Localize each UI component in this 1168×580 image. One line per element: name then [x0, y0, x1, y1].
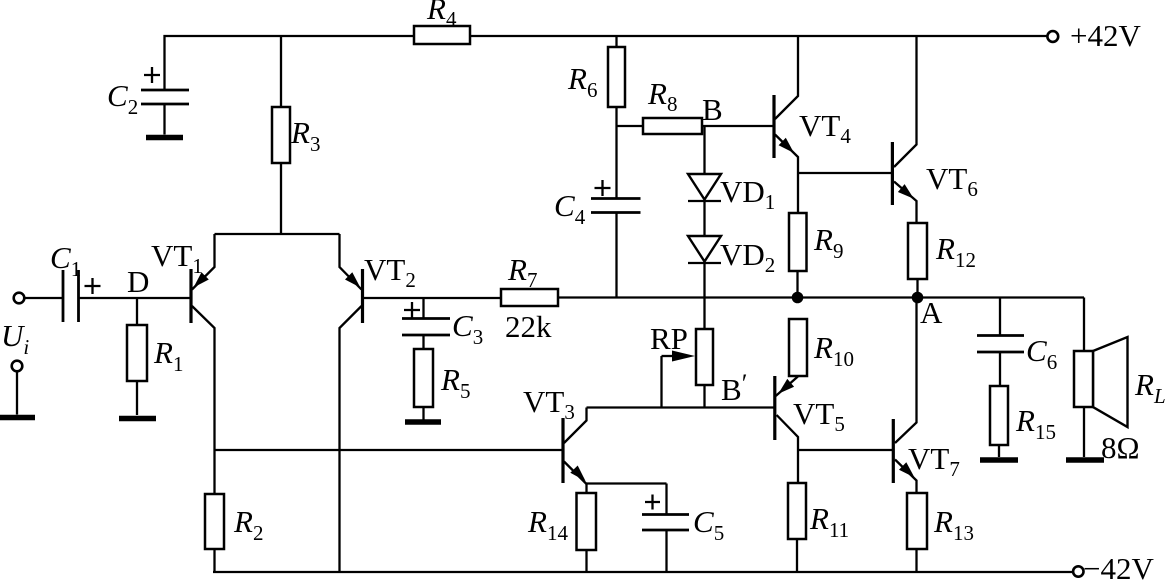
resistor R11 — [788, 483, 849, 572]
resistor R6 — [567, 36, 625, 199]
svg-text:A: A — [920, 295, 943, 330]
resistor R9 — [789, 213, 843, 298]
transistor VT6 — [892, 36, 977, 223]
resistor R4 — [414, 0, 470, 44]
wire VT2 base to R7 — [363, 297, 502, 299]
wire VT3 emitter to C5 — [587, 482, 667, 484]
speaker RL — [1074, 298, 1166, 466]
wire VT5 collector to VT7 base — [798, 449, 893, 451]
resistor R1 — [127, 298, 183, 415]
svg-text:RP: RP — [650, 321, 688, 356]
diode VD1 — [688, 174, 775, 214]
capacitor C2 — [107, 67, 189, 135]
resistor R14 — [527, 484, 596, 573]
transistor VT3 — [523, 384, 587, 484]
resistor R15 — [990, 352, 1056, 457]
resistor R10 — [789, 319, 854, 376]
capacitor C6 — [977, 298, 1057, 375]
resistor R3 — [272, 36, 320, 234]
svg-text:−42V: −42V — [1083, 551, 1154, 580]
resistor R8 — [617, 76, 703, 134]
ground below R15 — [980, 457, 1018, 463]
-42V terminal — [1073, 551, 1154, 580]
capacitor C3 — [402, 298, 483, 349]
svg-text:8Ω: 8Ω — [1101, 430, 1140, 465]
input terminal Ui — [1, 293, 62, 415]
svg-text:+42V: +42V — [1070, 18, 1141, 53]
transistor VT5 — [775, 376, 845, 483]
resistor R2 — [205, 450, 263, 572]
wire top supply rail right of R4 — [470, 35, 1048, 37]
wire B down to VD1 — [703, 126, 705, 174]
ground below R5 — [405, 419, 441, 425]
wire B' line VT3 collector to VT5 base — [587, 406, 775, 408]
wire top supply rail left of R4 — [165, 36, 415, 90]
ground below R1 — [119, 416, 156, 422]
wire C1 to VT1 base — [79, 297, 192, 299]
resistor R5 — [414, 335, 470, 420]
wire B to VT4 base — [702, 125, 774, 127]
wire mid bus R7 to output branch — [558, 296, 1084, 298]
potentiometer RP — [650, 321, 713, 408]
ground below speaker — [1066, 457, 1104, 463]
resistor R12 — [908, 223, 976, 298]
svg-text:B: B — [702, 92, 723, 127]
resistor R7 22k — [501, 252, 558, 344]
wire emitter bus of VT1/VT2 — [215, 233, 340, 235]
wire VT1 collector bus to VT3 base — [215, 449, 564, 451]
capacitor C5 — [642, 484, 724, 573]
diode VD2 — [688, 236, 775, 277]
junction node at R9/R10 — [792, 292, 804, 304]
transistor VT4 — [774, 36, 851, 213]
junction node A — [912, 292, 924, 304]
wire VD1 to VD2 — [703, 201, 705, 236]
transistor VT2 — [340, 234, 416, 572]
+42V terminal — [1047, 18, 1141, 53]
wire VT4 emitter to VT6 base — [798, 172, 892, 174]
ground below Ui — [0, 415, 35, 421]
ground below C2 — [146, 135, 183, 141]
capacitor C1 — [50, 240, 101, 322]
transistor VT7 — [893, 298, 960, 494]
capacitor C4 — [554, 180, 641, 298]
wire VD2 down to RP — [703, 263, 705, 329]
resistor R13 — [907, 493, 974, 572]
svg-text:22k: 22k — [505, 309, 552, 344]
wire bottom supply rail — [213, 571, 1073, 573]
svg-text:D: D — [127, 264, 149, 299]
transistor VT1 — [151, 234, 215, 450]
